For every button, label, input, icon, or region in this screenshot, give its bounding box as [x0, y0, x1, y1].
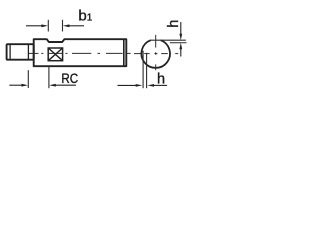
dimension b1 left dim line with arrow [26, 25, 42, 27]
dimension h bottom: extension line left [142, 51, 144, 88]
circle with flattened top [141, 40, 170, 68]
flat surface marker (crossed square) [48, 48, 62, 61]
stub inner line (thread runout) [27, 45, 29, 60]
dimension RC extension line right [48, 67, 50, 88]
shaft body outline with flat dip [34, 39, 127, 66]
dimension RC right dim line with arrow [55, 84, 76, 86]
stub (pilot end) [7, 44, 34, 60]
dimension b1 extension line right [62, 20, 64, 32]
dimension b1 extension line left [47, 20, 49, 32]
svg-text:RC: RC [61, 71, 78, 86]
dimension h bottom: left dim line with arrow [118, 84, 137, 86]
dimension b1 right dim line with arrow [69, 25, 85, 27]
dimension h top: upper line with down arrow [180, 22, 182, 35]
flat line extended right [150, 39, 186, 41]
dimension h top: lower line with up arrow [180, 49, 182, 57]
svg-text:h: h [166, 20, 182, 28]
vertical centerline [155, 35, 157, 70]
dimension h bottom: extension line right [146, 53, 148, 88]
dimension RC extension line left [27, 70, 29, 88]
dimension h bottom: right dim line with arrow [154, 84, 167, 86]
flat depth extension line [170, 42, 187, 44]
dimension RC left dim line with arrow [9, 84, 22, 86]
stub chamfer line [9, 45, 11, 60]
shaft right chamfer line [123, 40, 125, 67]
svg-text:b1: b1 [78, 8, 92, 25]
shaft centerline [29, 52, 131, 54]
svg-text:h: h [157, 72, 165, 88]
horizontal centerline [134, 53, 178, 55]
